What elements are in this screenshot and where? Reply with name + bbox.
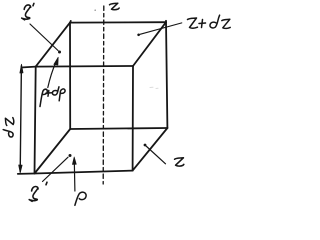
label rho+drho (upper left face) — [40, 87, 65, 107]
cube: front-right edge — [132, 66, 134, 171]
cube: front-left edge — [35, 67, 36, 174]
cube: top-right depth edge — [133, 22, 166, 66]
label S (bottom) — [29, 182, 47, 201]
cube: back-top edge — [70, 21, 166, 23]
cube: top-left depth edge — [36, 21, 71, 67]
cube: back-right edge — [166, 21, 167, 128]
leader from z to point on right face — [146, 146, 166, 164]
point dot on top face (z+dz) — [137, 34, 140, 37]
cube: bottom-right depth edge — [133, 128, 168, 171]
arrowhead (rho+drho) — [54, 57, 58, 65]
cube: front-bottom edge (with extension tick to dz dimension) — [18, 171, 133, 174]
dz dimension line — [20, 66, 21, 172]
label z+dz (top right) — [188, 15, 231, 28]
label dz (rotated, left side) — [3, 118, 14, 137]
point dot on right face (z) — [144, 144, 147, 147]
point dot on top face (outer surface S) — [58, 51, 61, 54]
arrow from rho+drho to outer surface dot — [48, 63, 56, 88]
label z (bottom right) — [175, 158, 184, 166]
cube: bottom-left depth edge — [35, 129, 71, 174]
arrow from rho up to bottom face dot — [73, 161, 76, 192]
label rho (bottom) — [75, 192, 86, 205]
cube: back-bottom edge — [70, 128, 167, 129]
leader from S (top) to point on top face — [30, 24, 58, 51]
faint stray marks — [150, 87, 158, 88]
label S (top left) — [22, 3, 34, 19]
z axis (dash-dot centerline) — [102, 6, 105, 184]
leader from z+dz to point on top face — [140, 23, 182, 34]
point dot on bottom face (inner surface S) — [69, 154, 72, 157]
arrowhead (rho) — [72, 157, 76, 164]
cube: back-left edge — [69, 23, 71, 129]
leader from S (bottom) to point on bottom face — [43, 157, 69, 181]
dz dimension top arrowhead — [20, 64, 23, 73]
label z (top, on axis) — [110, 3, 120, 9]
cube: front-top edge (with extension tick to dz dimension) — [23, 66, 133, 67]
dz dimension bottom arrowhead — [19, 165, 22, 173]
